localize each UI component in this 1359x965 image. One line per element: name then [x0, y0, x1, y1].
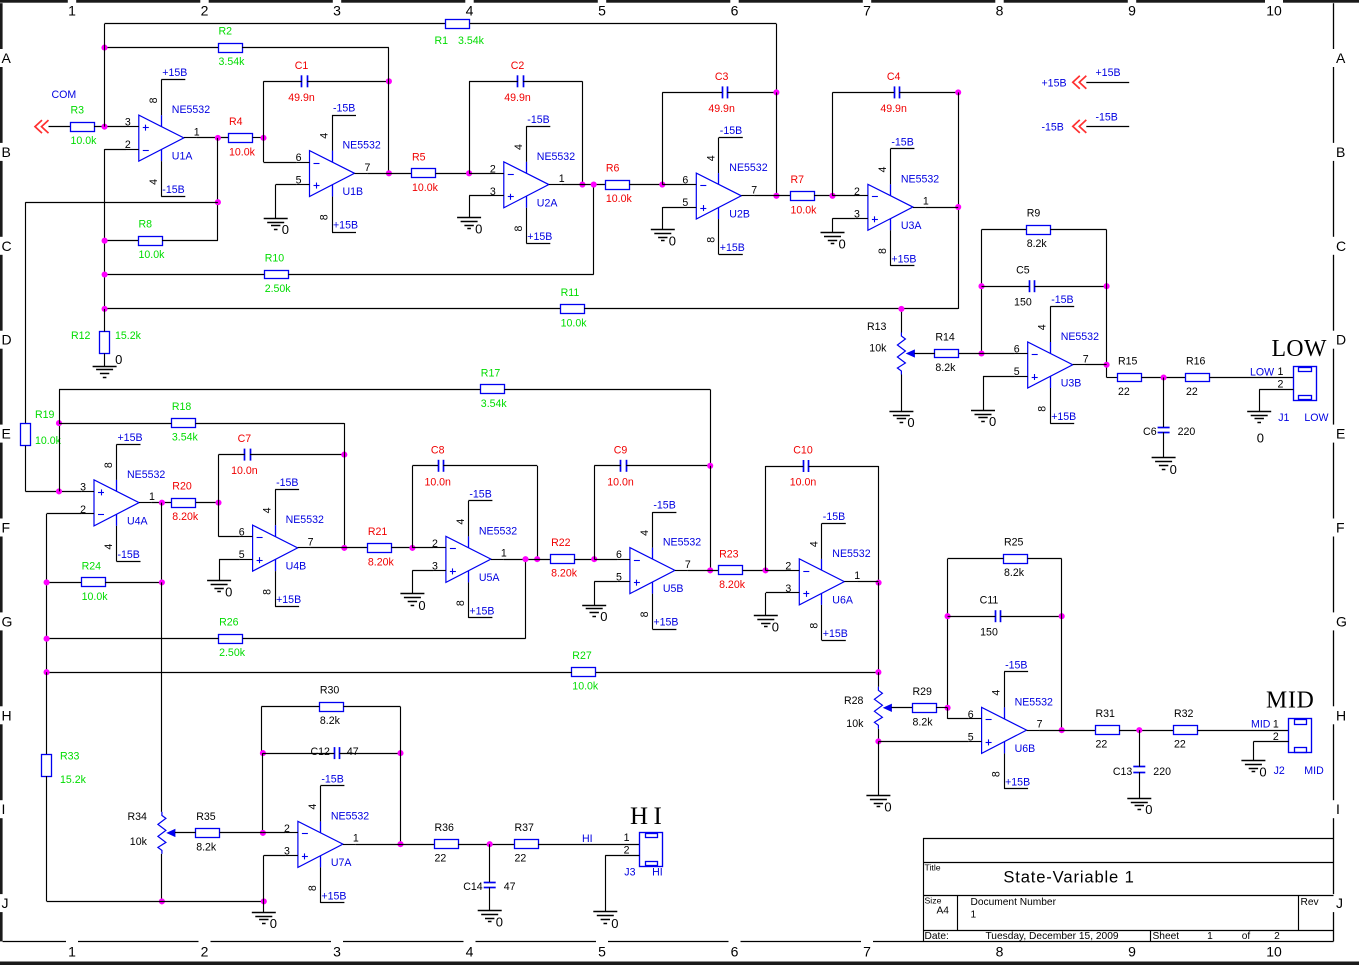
svg-text:8.20k: 8.20k — [551, 568, 578, 580]
svg-text:8.2k: 8.2k — [913, 716, 934, 728]
wire — [766, 570, 787, 572]
svg-text:R1: R1 — [435, 35, 449, 47]
svg-text:8: 8 — [513, 226, 525, 232]
svg-text:8.2k: 8.2k — [1004, 567, 1025, 579]
wire — [344, 423, 346, 548]
wire — [412, 570, 433, 572]
wire — [833, 218, 856, 220]
wire — [59, 389, 61, 423]
svg-text:MID: MID — [1251, 719, 1271, 731]
wire — [219, 559, 240, 561]
svg-text:C1: C1 — [295, 60, 309, 72]
wire — [662, 207, 664, 229]
wire — [25, 491, 81, 493]
wire — [1061, 559, 1063, 730]
wire — [582, 81, 584, 184]
svg-text:COM: COM — [52, 89, 77, 101]
wire — [264, 855, 285, 857]
wire — [832, 218, 834, 232]
wire — [605, 855, 639, 857]
svg-text:8.2k: 8.2k — [935, 362, 956, 374]
junction — [1161, 374, 1167, 380]
svg-text:0: 0 — [270, 916, 277, 931]
svg-text:+15B: +15B — [720, 242, 745, 254]
svg-text:0: 0 — [1145, 802, 1152, 817]
svg-text:R37: R37 — [515, 822, 535, 834]
wire — [307, 81, 389, 83]
svg-text:-15B: -15B — [1005, 659, 1027, 671]
svg-text:10k: 10k — [846, 718, 864, 730]
svg-text:C5: C5 — [1016, 265, 1030, 277]
svg-text:-15B: -15B — [1096, 111, 1118, 123]
potentiometer R34 — [127, 811, 174, 854]
svg-text:1: 1 — [559, 173, 565, 185]
svg-text:2: 2 — [284, 823, 290, 835]
svg-text:+15B: +15B — [276, 594, 301, 606]
svg-text:C4: C4 — [887, 71, 901, 83]
wire — [219, 536, 240, 538]
resistor R9 — [1027, 208, 1051, 251]
svg-text:0: 0 — [1259, 765, 1266, 780]
svg-text:R24: R24 — [82, 560, 102, 572]
svg-text:Size: Size — [925, 896, 942, 906]
svg-text:U3A: U3A — [901, 220, 923, 232]
wire — [367, 173, 411, 175]
capacitor C11 — [980, 595, 1001, 639]
junction — [101, 124, 107, 130]
svg-text:3: 3 — [333, 3, 341, 19]
wire — [105, 274, 265, 276]
ground — [1247, 412, 1271, 446]
junction — [522, 556, 528, 562]
wire — [412, 570, 414, 594]
wire — [833, 92, 895, 94]
svg-text:+15B: +15B — [1051, 411, 1076, 423]
power +15B — [117, 432, 143, 445]
port +15B — [1042, 67, 1130, 89]
svg-text:U5B: U5B — [663, 583, 684, 595]
power +15B — [1050, 411, 1076, 424]
wire — [469, 196, 471, 218]
resistor R23 — [719, 548, 746, 591]
svg-text:15.2k: 15.2k — [60, 774, 87, 786]
resistor R32 — [1174, 708, 1198, 751]
ground — [400, 594, 425, 613]
svg-text:22: 22 — [515, 853, 527, 865]
wire — [766, 592, 787, 594]
capacitor C4 — [880, 71, 907, 115]
wire — [1253, 742, 1255, 761]
resistor R7 — [791, 174, 818, 217]
resistor R17 — [481, 367, 508, 410]
svg-text:0: 0 — [496, 914, 503, 929]
wire R17 rail — [59, 389, 480, 391]
capacitor C13 — [1113, 766, 1171, 778]
junction — [945, 613, 951, 619]
svg-text:D: D — [1336, 332, 1346, 348]
wire — [412, 466, 414, 548]
wire — [1210, 377, 1294, 379]
svg-text:10.0k: 10.0k — [71, 135, 98, 147]
wire feedback to filter 2 — [25, 202, 218, 204]
wire — [104, 354, 106, 367]
wire U6A out column — [878, 583, 880, 673]
power -15B — [719, 125, 743, 137]
svg-text:4: 4 — [513, 144, 525, 150]
wire — [754, 195, 790, 197]
svg-text:47: 47 — [347, 746, 359, 758]
svg-text:8: 8 — [307, 885, 319, 891]
wire U4A out column to pot — [161, 582, 163, 812]
wire — [814, 195, 833, 197]
svg-text:10: 10 — [1266, 944, 1282, 960]
svg-text:8.2k: 8.2k — [196, 841, 217, 853]
resistor R22 — [551, 537, 578, 580]
svg-text:Document Number: Document Number — [971, 897, 1057, 908]
resistor R20 — [172, 481, 199, 524]
junction — [591, 556, 597, 562]
svg-text:1: 1 — [971, 910, 977, 921]
ground — [478, 911, 503, 930]
svg-text:10.0k: 10.0k — [561, 317, 588, 329]
junction — [1059, 613, 1065, 619]
resistor R16 — [1186, 356, 1210, 399]
svg-text:A: A — [1336, 50, 1346, 66]
op-amp U1A — [125, 80, 210, 197]
svg-text:R3: R3 — [71, 105, 85, 117]
wire — [104, 149, 106, 309]
svg-text:0: 0 — [907, 415, 914, 430]
svg-text:3.54k: 3.54k — [172, 432, 199, 444]
op-amp U3A — [854, 149, 939, 266]
junction — [1104, 362, 1110, 368]
junction — [159, 579, 165, 585]
wire — [104, 309, 106, 332]
resistor R29 — [913, 686, 937, 729]
junction — [44, 636, 50, 642]
svg-text:J2: J2 — [1274, 765, 1285, 777]
wire — [1259, 389, 1261, 411]
wire — [537, 466, 539, 559]
ground — [207, 581, 232, 600]
svg-text:150: 150 — [1014, 297, 1032, 309]
resistor R10 — [265, 253, 292, 296]
svg-text:J: J — [2, 895, 9, 911]
wire — [1035, 286, 1107, 288]
svg-text:F: F — [1336, 520, 1345, 536]
svg-text:10.0k: 10.0k — [791, 204, 818, 216]
svg-text:4: 4 — [705, 155, 717, 161]
svg-text:+15B: +15B — [1096, 67, 1121, 79]
wire — [412, 547, 433, 549]
svg-text:2: 2 — [80, 504, 86, 516]
wire U4A out column — [161, 503, 163, 583]
svg-text:0: 0 — [225, 585, 232, 600]
power -15B — [117, 549, 141, 562]
svg-text:8.20k: 8.20k — [368, 556, 395, 568]
svg-text:8: 8 — [148, 97, 160, 103]
wire — [220, 832, 263, 834]
ground — [582, 606, 607, 625]
wire — [219, 454, 245, 456]
op-amp U5A — [432, 501, 517, 618]
wire — [626, 465, 710, 467]
svg-text:U1B: U1B — [343, 186, 364, 198]
wire — [264, 81, 302, 83]
resistor R12 — [71, 330, 142, 353]
frame zone numbers top — [68, 3, 1282, 19]
svg-text:NE5532: NE5532 — [172, 104, 210, 116]
svg-text:R13: R13 — [867, 321, 887, 333]
wire — [59, 423, 61, 491]
svg-text:R11: R11 — [561, 287, 580, 299]
wire — [662, 92, 664, 184]
svg-text:LOW: LOW — [1304, 412, 1328, 424]
resistor R35 — [196, 811, 220, 854]
potentiometer R13 — [867, 321, 914, 375]
wire — [1106, 230, 1108, 378]
power +15B — [320, 890, 346, 902]
wire — [594, 466, 596, 559]
svg-text:4: 4 — [1037, 324, 1049, 330]
svg-text:R16: R16 — [1186, 356, 1206, 368]
wire — [584, 308, 958, 310]
resistor R26 — [219, 617, 246, 660]
wire — [596, 672, 879, 674]
svg-text:0: 0 — [600, 609, 607, 624]
power -15B — [890, 136, 914, 148]
svg-text:HI: HI — [652, 867, 663, 879]
svg-text:R29: R29 — [913, 686, 933, 698]
wire — [901, 375, 903, 412]
junction — [44, 669, 50, 675]
junction — [102, 271, 108, 277]
svg-text:J1: J1 — [1278, 412, 1289, 424]
wire — [47, 513, 82, 515]
wire — [105, 308, 560, 310]
wire — [663, 207, 684, 209]
svg-text:2: 2 — [624, 844, 630, 856]
svg-text:C14: C14 — [463, 881, 483, 893]
svg-text:-15B: -15B — [720, 125, 742, 137]
svg-text:7: 7 — [1083, 353, 1089, 365]
wire — [162, 240, 218, 242]
capacitor C7 — [231, 433, 258, 477]
svg-text:-15B: -15B — [162, 184, 184, 196]
wire — [575, 559, 595, 561]
svg-text:+15B: +15B — [162, 67, 187, 79]
junction — [978, 283, 984, 289]
wire — [1253, 741, 1288, 743]
svg-text:7: 7 — [308, 536, 314, 548]
svg-text:0: 0 — [1257, 431, 1264, 446]
svg-text:C7: C7 — [238, 433, 252, 445]
svg-text:Title: Title — [925, 863, 941, 873]
svg-text:U2B: U2B — [729, 209, 750, 221]
svg-text:Tuesday, December 15, 2009: Tuesday, December 15, 2009 — [985, 931, 1118, 942]
wire — [217, 138, 219, 241]
junction — [1136, 727, 1142, 733]
svg-text:-15B: -15B — [321, 773, 343, 785]
wire — [264, 162, 297, 164]
wire — [253, 137, 264, 139]
svg-text:1: 1 — [1207, 931, 1213, 942]
svg-text:8: 8 — [319, 214, 331, 220]
svg-text:4: 4 — [466, 944, 474, 960]
svg-text:10.0k: 10.0k — [139, 249, 166, 261]
wire — [629, 184, 662, 186]
wire — [525, 559, 527, 639]
capacitor C8 — [424, 444, 451, 488]
svg-text:C11: C11 — [980, 595, 999, 607]
svg-text:1: 1 — [923, 196, 929, 208]
svg-text:C13: C13 — [1113, 766, 1133, 778]
wire — [218, 455, 220, 537]
wire ground rail — [47, 901, 264, 903]
op-amp U7A — [284, 786, 369, 903]
ground — [93, 352, 123, 378]
svg-text:4: 4 — [307, 804, 319, 810]
wire — [710, 389, 712, 465]
wire — [436, 173, 470, 175]
junction — [579, 182, 585, 188]
capacitor C9 — [607, 444, 634, 488]
junction — [341, 452, 347, 458]
wire — [688, 570, 719, 572]
svg-text:10.0k: 10.0k — [35, 435, 62, 447]
wire — [261, 707, 263, 753]
svg-text:U4A: U4A — [127, 515, 149, 527]
svg-text:8: 8 — [877, 248, 889, 254]
svg-text:10.0k: 10.0k — [82, 591, 109, 603]
svg-text:E: E — [1336, 426, 1345, 442]
wire — [878, 466, 880, 583]
junction — [875, 669, 881, 675]
wire — [489, 844, 491, 882]
wire — [727, 92, 776, 94]
wire to pot R28 — [878, 672, 880, 687]
junction — [955, 89, 961, 95]
capacitor C14 — [463, 881, 515, 893]
op-amp U4A — [80, 444, 165, 561]
wire — [469, 81, 518, 83]
svg-text:R14: R14 — [935, 332, 955, 344]
svg-text:7: 7 — [1037, 719, 1043, 731]
op-amp U1B — [296, 115, 381, 232]
frame zone numbers bottom — [68, 944, 1282, 960]
power +15B — [822, 628, 848, 641]
svg-text:I: I — [1336, 801, 1340, 817]
wire — [47, 672, 572, 674]
svg-text:R25: R25 — [1004, 537, 1024, 549]
junction — [1104, 283, 1110, 289]
svg-text:NE5532: NE5532 — [127, 469, 165, 481]
capacitor C3 — [708, 71, 735, 115]
svg-text:8: 8 — [1037, 406, 1049, 412]
svg-text:49.9n: 49.9n — [504, 92, 531, 104]
svg-text:I: I — [2, 801, 6, 817]
capacitor C6 — [1143, 426, 1195, 438]
svg-text:-15B: -15B — [1051, 294, 1073, 306]
svg-text:U6A: U6A — [832, 594, 854, 606]
svg-text:4: 4 — [148, 179, 160, 185]
svg-text:3.54k: 3.54k — [458, 35, 485, 47]
svg-text:R12: R12 — [71, 330, 91, 342]
port COM — [35, 89, 76, 133]
svg-text:47: 47 — [504, 881, 516, 893]
resistor R25 — [1004, 537, 1028, 580]
svg-text:15.2k: 15.2k — [115, 330, 142, 342]
svg-text:0: 0 — [1170, 462, 1177, 477]
svg-text:150: 150 — [980, 627, 998, 639]
wire — [275, 185, 277, 219]
svg-text:22: 22 — [1174, 739, 1186, 751]
svg-text:LOW: LOW — [1272, 336, 1328, 362]
power -15B — [822, 511, 846, 524]
svg-text:R23: R23 — [719, 548, 739, 560]
svg-text:22: 22 — [1118, 386, 1130, 398]
svg-text:8: 8 — [996, 944, 1004, 960]
svg-text:HI: HI — [582, 833, 593, 845]
wire — [948, 558, 1004, 560]
svg-text:R15: R15 — [1118, 356, 1138, 368]
svg-text:R30: R30 — [320, 685, 340, 697]
wire — [412, 465, 438, 467]
power +15B — [526, 231, 552, 244]
svg-text:6: 6 — [731, 3, 739, 19]
junction — [215, 135, 221, 141]
svg-text:10.0n: 10.0n — [790, 477, 817, 489]
junction — [260, 135, 266, 141]
power -15B — [332, 103, 356, 116]
wire — [46, 672, 48, 754]
svg-text:R31: R31 — [1096, 708, 1116, 720]
wire — [1050, 229, 1106, 231]
svg-text:0: 0 — [115, 352, 122, 367]
svg-text:C6: C6 — [1143, 426, 1157, 438]
svg-text:6: 6 — [968, 709, 974, 721]
svg-text:7: 7 — [751, 184, 757, 196]
op-amp U2A — [490, 126, 575, 243]
svg-text:8: 8 — [705, 237, 717, 243]
wire — [242, 47, 389, 49]
resistor R4 — [229, 116, 256, 158]
svg-text:NE5532: NE5532 — [331, 810, 369, 822]
svg-text:1: 1 — [149, 491, 155, 503]
svg-text:8.2k: 8.2k — [320, 715, 341, 727]
junction — [591, 182, 597, 188]
junction — [215, 199, 221, 205]
junction — [875, 738, 881, 744]
wire — [710, 466, 712, 571]
wire — [340, 753, 401, 755]
resistor R37 — [515, 822, 539, 865]
capacitor C5 — [1014, 265, 1034, 309]
junction — [1059, 727, 1065, 733]
frame bottom bar — [0, 962, 1359, 965]
junction — [260, 830, 266, 836]
svg-text:R27: R27 — [572, 650, 592, 662]
resistor R19 — [21, 409, 62, 447]
wire — [263, 81, 265, 162]
svg-text:U5A: U5A — [479, 572, 501, 584]
svg-text:4: 4 — [877, 167, 889, 173]
power +15B — [332, 220, 358, 233]
ground — [971, 411, 996, 430]
wire R1 rail — [105, 23, 446, 25]
junction — [659, 182, 665, 188]
title block text — [925, 863, 1320, 943]
